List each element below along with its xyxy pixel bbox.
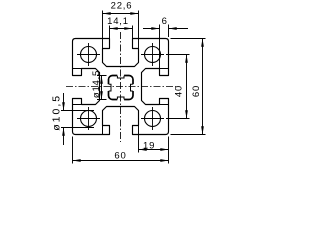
- dimension 14,1 (top): [110, 26, 133, 41]
- crosshair top-right hole: [141, 43, 164, 66]
- svg-text:19: 19: [143, 141, 155, 152]
- svg-text:40: 40: [173, 85, 184, 97]
- hole bottom-right: [145, 111, 161, 127]
- dimension 22,6 (top): [103, 11, 139, 49]
- dimension 40 (right, vertical): [166, 55, 190, 119]
- dimension 60 (bottom): [73, 137, 169, 164]
- hole top-left ø10,5: [81, 47, 97, 63]
- dimension 19 (bottom right): [139, 126, 169, 164]
- dimension 60 (right, vertical): [171, 39, 206, 135]
- center bore notch left: [109, 84, 111, 91]
- svg-text:ø14,5: ø14,5: [91, 70, 102, 98]
- center bore square: [109, 76, 134, 100]
- center bore notch gaps: [107, 74, 135, 101]
- vertical centerline: [120, 32, 122, 142]
- lip slit right slot upper: [160, 68, 169, 70]
- dimension ø14,5 (center): [97, 76, 107, 100]
- svg-text:14,1: 14,1: [107, 16, 129, 27]
- hole top-right: [145, 47, 161, 63]
- hole bottom-left: [81, 111, 97, 127]
- horizontal centerline: [66, 86, 176, 88]
- dimension ø10,5 (left): [61, 93, 94, 145]
- center bore notch top: [117, 76, 124, 78]
- svg-text:ø10,5: ø10,5: [50, 94, 62, 131]
- svg-text:22,6: 22,6: [111, 0, 133, 11]
- svg-text:60: 60: [191, 85, 202, 97]
- profile outline (60x60 extrusion body with 4 T-slot cuts): [73, 39, 169, 135]
- center bore notch bottom: [117, 97, 124, 99]
- svg-text:60: 60: [114, 151, 126, 162]
- lip slit left slot lower: [73, 104, 82, 106]
- crosshair bottom-right hole: [141, 107, 164, 130]
- crosshair top-left hole: [77, 43, 100, 66]
- lip slit left slot upper: [73, 68, 82, 70]
- center bore notch right: [131, 84, 133, 91]
- dimension 6 (top right): [143, 25, 188, 69]
- crosshair bottom-left hole: [77, 107, 100, 130]
- lip slit right slot lower: [160, 104, 169, 106]
- lip slit bottom slot left: [102, 126, 104, 135]
- svg-text:6: 6: [162, 16, 167, 27]
